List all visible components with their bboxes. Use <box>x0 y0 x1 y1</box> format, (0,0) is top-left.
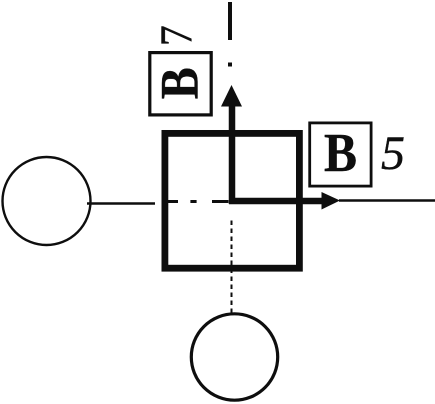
svg-text:B: B <box>150 67 210 99</box>
datum frame box B (top, rotated) <box>150 53 211 115</box>
datum frame box B (right) <box>310 123 371 186</box>
square part outline <box>165 133 300 268</box>
datum target circle (bottom) <box>191 314 277 400</box>
datum target circle (left) <box>3 157 91 245</box>
horizontal centerline dashes inside square <box>168 200 229 203</box>
svg-text:5: 5 <box>381 127 405 180</box>
vertical centerline below square (dashed, to bottom circle) <box>231 221 233 314</box>
svg-text:7: 7 <box>151 25 202 46</box>
svg-text:B: B <box>324 122 357 183</box>
right arrow shaft <box>229 198 323 205</box>
right arrow head <box>322 192 341 210</box>
leader line from left circle to square <box>87 202 155 205</box>
up arrow head <box>221 85 242 107</box>
thin extension line to right edge <box>339 199 435 202</box>
up arrow shaft <box>229 101 236 204</box>
vertical centerline above square (dash and dot) <box>228 2 232 67</box>
